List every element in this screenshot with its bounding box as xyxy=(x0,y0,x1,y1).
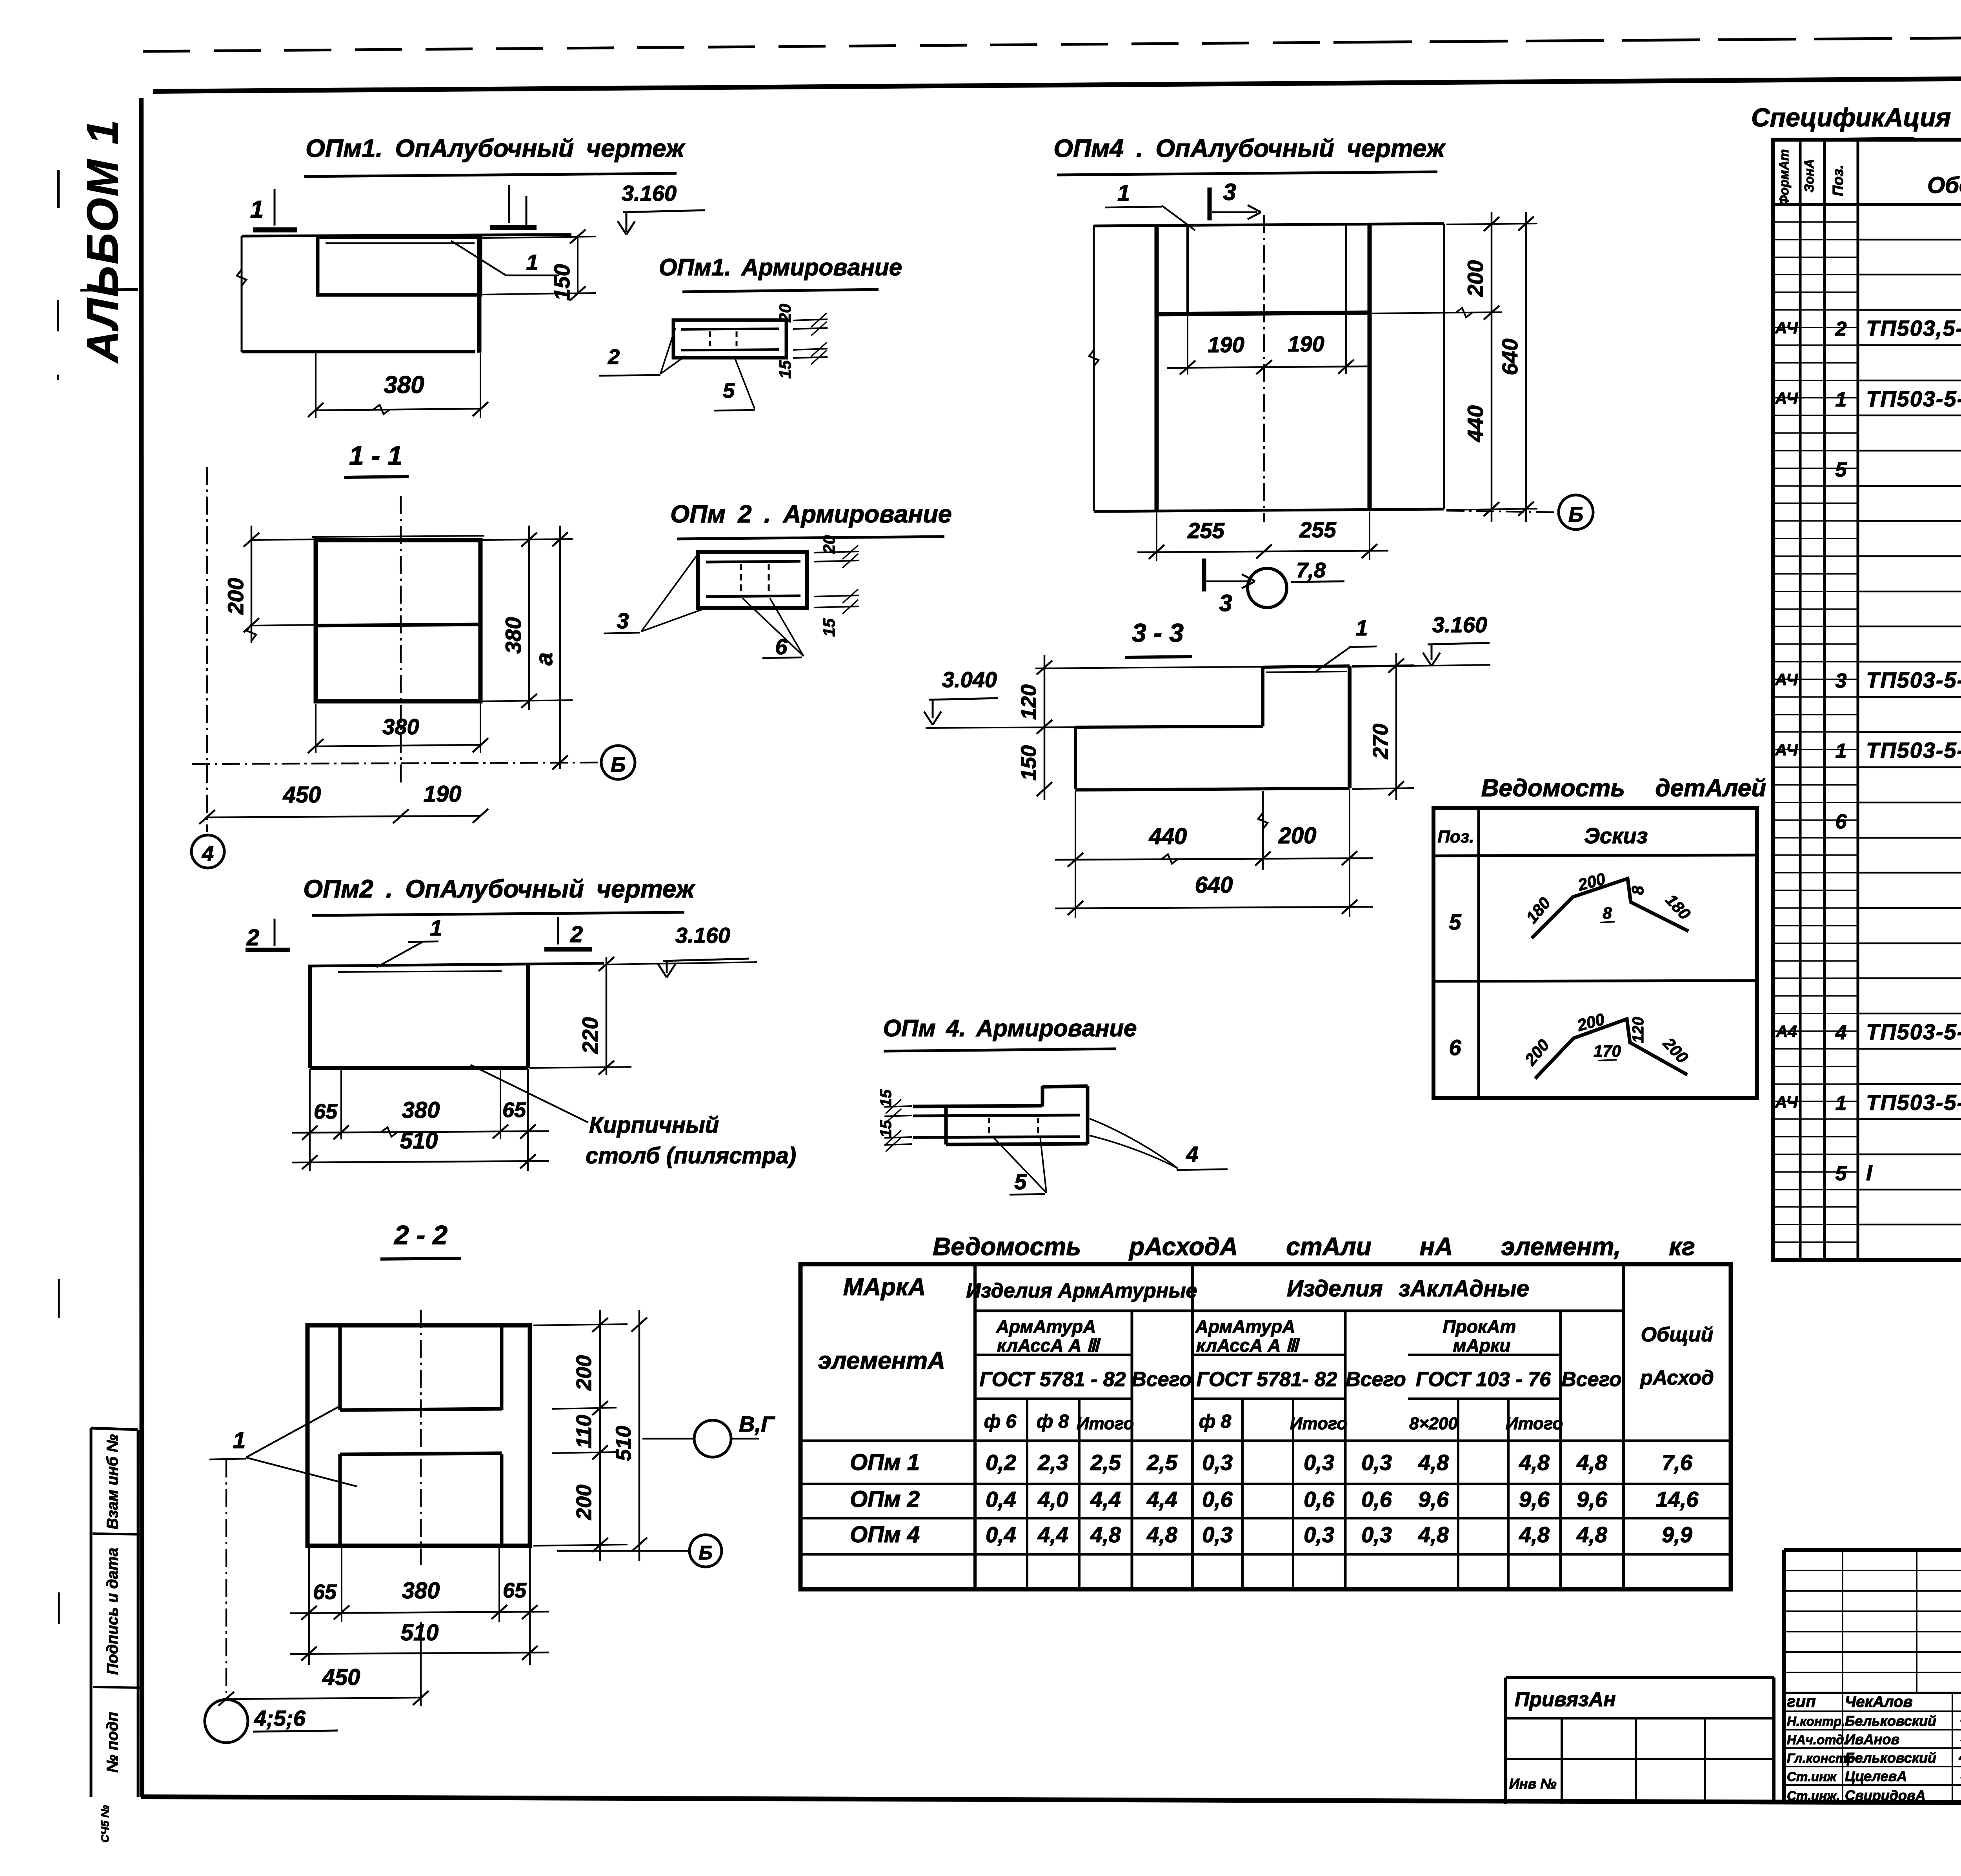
svg-text:3.160: 3.160 xyxy=(1432,612,1487,637)
svg-text:200: 200 xyxy=(1278,823,1317,848)
svg-text:4: 4 xyxy=(1186,1142,1198,1166)
svg-text:ф 8: ф 8 xyxy=(1037,1411,1069,1432)
svg-text:9,9: 9,9 xyxy=(1662,1522,1692,1547)
svg-text:ЗонА: ЗонА xyxy=(1802,159,1816,192)
svg-text:4,8: 4,8 xyxy=(1576,1450,1608,1475)
svg-text:ЦцелевА: ЦцелевА xyxy=(1845,1768,1907,1784)
svg-text:190: 190 xyxy=(1288,331,1324,356)
svg-text:1: 1 xyxy=(1835,1092,1847,1115)
svg-text:элементА: элементА xyxy=(818,1347,945,1374)
svg-text:Изделия АрмАтурные: Изделия АрмАтурные xyxy=(966,1279,1197,1302)
svg-text:2: 2 xyxy=(608,345,620,369)
svg-text:1: 1 xyxy=(430,915,442,940)
svg-text:0,2: 0,2 xyxy=(986,1450,1016,1475)
svg-text:АЧ: АЧ xyxy=(1775,741,1798,759)
svg-text:200: 200 xyxy=(1463,260,1488,297)
svg-text:0,3: 0,3 xyxy=(1202,1450,1233,1475)
svg-text:380: 380 xyxy=(402,1578,440,1603)
svg-text:255: 255 xyxy=(1299,517,1336,542)
svg-text:Всего: Всего xyxy=(1561,1368,1622,1391)
svg-text:ГОСТ 5781 - 82: ГОСТ 5781 - 82 xyxy=(979,1368,1126,1391)
svg-text:АЧ: АЧ xyxy=(1775,318,1798,337)
svg-text:270: 270 xyxy=(1369,724,1392,759)
svg-text:4,8: 4,8 xyxy=(1146,1522,1178,1547)
svg-text:ФормАт: ФормАт xyxy=(1777,149,1791,205)
svg-text:1 - 1: 1 - 1 xyxy=(349,441,402,471)
svg-text:65: 65 xyxy=(313,1580,337,1604)
svg-text:4,8: 4,8 xyxy=(1519,1450,1550,1475)
svg-text:200: 200 xyxy=(572,1355,596,1391)
svg-text:1: 1 xyxy=(1355,615,1368,640)
svg-text:ОПм 1: ОПм 1 xyxy=(850,1450,920,1475)
svg-text:150: 150 xyxy=(549,264,574,300)
svg-text:ГОСТ 103 - 76: ГОСТ 103 - 76 xyxy=(1416,1368,1551,1391)
svg-text:1: 1 xyxy=(1117,180,1130,206)
svg-text:255: 255 xyxy=(1187,518,1224,543)
svg-text:№ подп: № подп xyxy=(104,1712,121,1773)
svg-text:110: 110 xyxy=(572,1415,596,1448)
svg-text:мАрки: мАрки xyxy=(1453,1335,1511,1356)
svg-text:СЧ5 №: СЧ5 № xyxy=(99,1805,111,1843)
svg-text:640: 640 xyxy=(1497,338,1522,375)
svg-text:ОбознАчение: ОбознАчение xyxy=(1927,173,1961,198)
svg-text:15: 15 xyxy=(877,1089,895,1107)
svg-text:450: 450 xyxy=(322,1665,360,1690)
svg-text:380: 380 xyxy=(402,1097,440,1123)
svg-text:ОПм1. Армировaние: ОПм1. Армировaние xyxy=(659,254,902,280)
svg-text:150: 150 xyxy=(1017,745,1041,781)
svg-text:ОПм4 . ОпАлубочный чертеж: ОПм4 . ОпАлубочный чертеж xyxy=(1053,134,1446,162)
svg-text:ОПм1. ОпАлубочный чертеж: ОПм1. ОпАлубочный чертеж xyxy=(306,134,686,162)
svg-text:Всего: Всего xyxy=(1346,1368,1406,1391)
svg-text:ИвАнов: ИвАнов xyxy=(1845,1731,1899,1747)
svg-text:ОПм 2: ОПм 2 xyxy=(850,1487,920,1512)
svg-text:0,3: 0,3 xyxy=(1202,1522,1233,1547)
svg-text:Всего: Всего xyxy=(1131,1368,1192,1391)
svg-text:СвиридовА: СвиридовА xyxy=(1845,1787,1926,1803)
svg-text:столб (пилястра): столб (пилястра) xyxy=(586,1143,796,1168)
svg-text:15: 15 xyxy=(820,618,838,637)
svg-text:0,6: 0,6 xyxy=(1361,1487,1392,1512)
svg-text:I: I xyxy=(1866,1160,1873,1185)
svg-text:МАркА: МАркА xyxy=(843,1274,926,1301)
svg-text:15: 15 xyxy=(877,1120,895,1137)
svg-text:ТП503-5-12.85: ТП503-5-12.85 xyxy=(1866,1019,1961,1044)
svg-text:220: 220 xyxy=(578,1017,602,1054)
svg-text:120: 120 xyxy=(1630,1017,1647,1043)
svg-text:Изделия зАклАдные: Изделия зАклАдные xyxy=(1287,1276,1529,1301)
svg-text:200: 200 xyxy=(572,1485,596,1520)
svg-text:Кирпичный: Кирпичный xyxy=(589,1112,719,1138)
svg-text:5: 5 xyxy=(1449,910,1461,934)
svg-text:ТП503-5-12.85: ТП503-5-12.85 xyxy=(1866,1090,1961,1115)
svg-text:200: 200 xyxy=(223,578,248,615)
svg-text:9,6: 9,6 xyxy=(1519,1487,1550,1512)
svg-text:Эскиз: Эскиз xyxy=(1584,823,1648,848)
svg-text:440: 440 xyxy=(1149,824,1187,849)
svg-text:0,3: 0,3 xyxy=(1304,1522,1334,1547)
svg-text:9,6: 9,6 xyxy=(1577,1487,1608,1512)
svg-text:3.160: 3.160 xyxy=(622,181,677,206)
svg-text:ЧекАлов: ЧекАлов xyxy=(1845,1693,1913,1710)
svg-text:0,3: 0,3 xyxy=(1361,1522,1392,1547)
svg-text:5: 5 xyxy=(1835,459,1847,481)
svg-text:2,5: 2,5 xyxy=(1090,1450,1121,1475)
svg-text:2: 2 xyxy=(1835,318,1847,340)
svg-text:СпецификАция монолитных опор: СпецификАция монолитных опорных подушек xyxy=(1751,103,1961,132)
svg-text:5: 5 xyxy=(723,379,735,402)
svg-text:Б: Б xyxy=(611,753,626,777)
svg-text:380: 380 xyxy=(384,371,424,398)
svg-text:0,4: 0,4 xyxy=(986,1487,1016,1512)
svg-text:450: 450 xyxy=(283,782,321,808)
svg-text:8: 8 xyxy=(1603,904,1612,922)
svg-text:Б: Б xyxy=(699,1542,712,1564)
svg-text:АЧ: АЧ xyxy=(1775,670,1798,689)
svg-text:Н.контр.: Н.контр. xyxy=(1787,1714,1845,1729)
svg-text:4,4: 4,4 xyxy=(1146,1487,1177,1512)
svg-text:Подпись и дата: Подпись и дата xyxy=(104,1548,121,1675)
svg-text:380: 380 xyxy=(501,617,526,653)
svg-text:АрмАтурА: АрмАтурА xyxy=(996,1316,1096,1337)
svg-text:190: 190 xyxy=(424,781,462,807)
svg-text:Итого: Итого xyxy=(1290,1414,1347,1433)
svg-text:ОПм2 . ОпАлубочный чертеж: ОПм2 . ОпАлубочный чертеж xyxy=(303,875,695,903)
svg-text:ОПм 4: ОПм 4 xyxy=(850,1522,920,1547)
svg-text:9,6: 9,6 xyxy=(1418,1487,1449,1512)
svg-text:Б: Б xyxy=(1568,503,1583,526)
svg-text:380: 380 xyxy=(382,714,419,739)
svg-text:3: 3 xyxy=(1835,670,1847,692)
svg-text:НАч.отд.: НАч.отд. xyxy=(1787,1732,1848,1747)
svg-text:20: 20 xyxy=(820,535,838,554)
svg-text:4,4: 4,4 xyxy=(1090,1487,1121,1512)
svg-text:65: 65 xyxy=(502,1098,526,1122)
svg-text:510: 510 xyxy=(400,1128,438,1154)
svg-text:4: 4 xyxy=(202,842,214,865)
svg-text:гип: гип xyxy=(1787,1692,1816,1710)
svg-text:ГОСТ 5781- 82: ГОСТ 5781- 82 xyxy=(1197,1368,1337,1391)
svg-text:0,6: 0,6 xyxy=(1304,1487,1335,1512)
svg-text:4;5;6: 4;5;6 xyxy=(254,1706,306,1730)
svg-text:4,8: 4,8 xyxy=(1418,1450,1449,1475)
svg-text:ф 8: ф 8 xyxy=(1199,1411,1232,1432)
svg-text:2,5: 2,5 xyxy=(1146,1450,1178,1475)
svg-text:65: 65 xyxy=(314,1100,338,1123)
svg-text:Ведомость рАсходА стАли: Ведомость рАсходА стАли нА элемент, кг xyxy=(933,1232,1695,1261)
svg-text:ТП503-5-12.85: ТП503-5-12.85 xyxy=(1866,386,1961,411)
svg-text:4,4: 4,4 xyxy=(1037,1522,1068,1547)
svg-text:3: 3 xyxy=(617,608,629,633)
svg-text:рАсход: рАсход xyxy=(1639,1367,1714,1389)
svg-text:2: 2 xyxy=(246,925,259,950)
svg-text:5: 5 xyxy=(1014,1169,1027,1194)
svg-text:Итого: Итого xyxy=(1506,1414,1563,1433)
svg-text:4,8: 4,8 xyxy=(1519,1522,1550,1547)
svg-text:1: 1 xyxy=(1835,740,1847,762)
svg-text:6: 6 xyxy=(1449,1035,1461,1060)
svg-text:Бельковский: Бельковский xyxy=(1845,1750,1936,1766)
svg-text:120: 120 xyxy=(1017,684,1041,720)
svg-text:Поз.: Поз. xyxy=(1437,827,1474,846)
svg-text:Инв №: Инв № xyxy=(1509,1776,1557,1792)
svg-text:В,Г: В,Г xyxy=(739,1412,775,1436)
svg-text:ТП503-5-12.85: ТП503-5-12.85 xyxy=(1866,668,1961,692)
svg-text:4,0: 4,0 xyxy=(1037,1487,1068,1512)
svg-text:АЛЬБОМ 1: АЛЬБОМ 1 xyxy=(78,118,127,364)
svg-text:0,3: 0,3 xyxy=(1361,1450,1392,1475)
svg-text:14,6: 14,6 xyxy=(1656,1487,1699,1512)
svg-text:1: 1 xyxy=(1835,388,1847,411)
svg-text:АЧ: АЧ xyxy=(1775,389,1798,408)
svg-text:А4: А4 xyxy=(1775,1022,1797,1041)
svg-text:7,6: 7,6 xyxy=(1662,1450,1693,1475)
svg-text:АЧ: АЧ xyxy=(1775,1093,1798,1111)
svg-text:0,4: 0,4 xyxy=(986,1522,1016,1547)
svg-text:Общий: Общий xyxy=(1641,1323,1714,1346)
svg-text:ОПм 4. Армировaние: ОПм 4. Армировaние xyxy=(883,1015,1137,1041)
svg-text:0,6: 0,6 xyxy=(1202,1487,1233,1512)
svg-text:65: 65 xyxy=(503,1579,527,1602)
svg-text:6: 6 xyxy=(775,634,788,659)
svg-text:АрмАтурА: АрмАтурА xyxy=(1195,1316,1295,1337)
svg-text:3: 3 xyxy=(1223,179,1236,205)
svg-text:ТП503,5-12.85: ТП503,5-12.85 xyxy=(1866,316,1961,340)
svg-text:Итого: Итого xyxy=(1077,1414,1134,1433)
svg-text:640: 640 xyxy=(1195,872,1233,898)
svg-text:3.160: 3.160 xyxy=(675,923,730,948)
svg-text:15: 15 xyxy=(776,360,794,378)
svg-text:3.040: 3.040 xyxy=(942,667,997,692)
svg-text:Поз.: Поз. xyxy=(1830,165,1846,197)
svg-text:5: 5 xyxy=(1835,1162,1847,1185)
svg-text:1: 1 xyxy=(233,1428,246,1453)
svg-text:8: 8 xyxy=(1628,886,1647,895)
svg-text:510: 510 xyxy=(401,1620,439,1645)
svg-text:20: 20 xyxy=(776,304,794,323)
svg-text:1: 1 xyxy=(250,196,264,223)
svg-text:Ст.инж.: Ст.инж. xyxy=(1787,1789,1840,1803)
svg-text:клАссА А Ⅲ: клАссА А Ⅲ xyxy=(1196,1335,1300,1356)
svg-text:8×200: 8×200 xyxy=(1409,1414,1458,1433)
svg-text:ф 6: ф 6 xyxy=(984,1411,1017,1432)
svg-text:ПрокАт: ПрокАт xyxy=(1443,1316,1516,1337)
svg-text:ПривязАн: ПривязАн xyxy=(1515,1688,1616,1711)
svg-text:6: 6 xyxy=(1835,810,1847,833)
svg-text:440: 440 xyxy=(1463,405,1488,442)
svg-text:4,8: 4,8 xyxy=(1576,1522,1608,1547)
svg-text:7,8: 7,8 xyxy=(1296,559,1326,582)
svg-text:ОПм 2 . Армировaние: ОПм 2 . Армировaние xyxy=(670,500,952,528)
svg-text:4,8: 4,8 xyxy=(1090,1522,1121,1547)
svg-text:2: 2 xyxy=(570,922,583,947)
svg-text:a: a xyxy=(531,652,557,665)
svg-text:510: 510 xyxy=(612,1426,635,1461)
svg-text:Взам инб №: Взам инб № xyxy=(104,1434,121,1530)
svg-text:1: 1 xyxy=(526,250,538,275)
svg-text:170: 170 xyxy=(1594,1042,1621,1060)
svg-text:2 - 2: 2 - 2 xyxy=(393,1220,448,1250)
svg-text:4,8: 4,8 xyxy=(1418,1522,1449,1547)
svg-text:4: 4 xyxy=(1835,1021,1847,1044)
svg-text:Ведомость детАлей: Ведомость детАлей xyxy=(1481,775,1766,802)
svg-text:3: 3 xyxy=(1219,590,1232,616)
svg-text:ТП503-5-12.85: ТП503-5-12.85 xyxy=(1866,738,1961,762)
svg-text:0,3: 0,3 xyxy=(1304,1450,1334,1475)
svg-text:2,3: 2,3 xyxy=(1037,1450,1068,1475)
svg-text:Бельковский: Бельковский xyxy=(1845,1713,1936,1729)
svg-text:Ст.инж: Ст.инж xyxy=(1787,1769,1837,1784)
svg-text:190: 190 xyxy=(1208,332,1244,357)
svg-text:клАссА А Ⅲ: клАссА А Ⅲ xyxy=(997,1335,1101,1356)
svg-text:3 - 3: 3 - 3 xyxy=(1132,618,1184,647)
